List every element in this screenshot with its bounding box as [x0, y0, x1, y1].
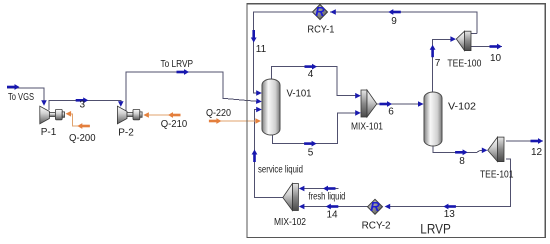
svg-text:V-101: V-101 — [287, 89, 312, 100]
svg-text:12: 12 — [531, 147, 543, 158]
svg-text:10: 10 — [490, 53, 502, 64]
svg-text:14: 14 — [326, 210, 338, 221]
svg-text:RCY-2: RCY-2 — [362, 221, 391, 232]
svg-text:fresh liquid: fresh liquid — [308, 192, 345, 203]
svg-text:5: 5 — [308, 148, 314, 159]
svg-text:Q-200: Q-200 — [69, 133, 96, 144]
svg-text:R: R — [315, 4, 325, 19]
svg-text:6: 6 — [388, 107, 394, 118]
svg-text:R: R — [370, 199, 380, 214]
svg-text:To VGS: To VGS — [8, 92, 34, 103]
svg-text:Q-210: Q-210 — [161, 119, 188, 130]
svg-text:V-102: V-102 — [448, 102, 476, 113]
svg-text:To LRVP: To LRVP — [161, 59, 194, 70]
svg-text:7: 7 — [435, 58, 441, 69]
svg-text:8: 8 — [459, 156, 465, 167]
svg-text:P-2: P-2 — [118, 128, 134, 139]
svg-text:9: 9 — [391, 16, 397, 27]
svg-text:MIX-102: MIX-102 — [274, 217, 306, 228]
svg-text:3: 3 — [80, 100, 86, 111]
svg-text:LRVP: LRVP — [420, 221, 451, 237]
svg-text:service liquid: service liquid — [258, 165, 303, 176]
svg-text:RCY-1: RCY-1 — [307, 25, 334, 36]
svg-text:MIX-101: MIX-101 — [351, 122, 383, 133]
svg-text:TEE-100: TEE-100 — [447, 59, 481, 70]
svg-text:13: 13 — [444, 209, 456, 220]
svg-text:TEE-101: TEE-101 — [480, 170, 514, 181]
svg-text:P-1: P-1 — [41, 127, 57, 138]
svg-text:11: 11 — [256, 44, 267, 55]
svg-text:Q-220: Q-220 — [206, 108, 231, 119]
svg-text:4: 4 — [308, 69, 314, 80]
